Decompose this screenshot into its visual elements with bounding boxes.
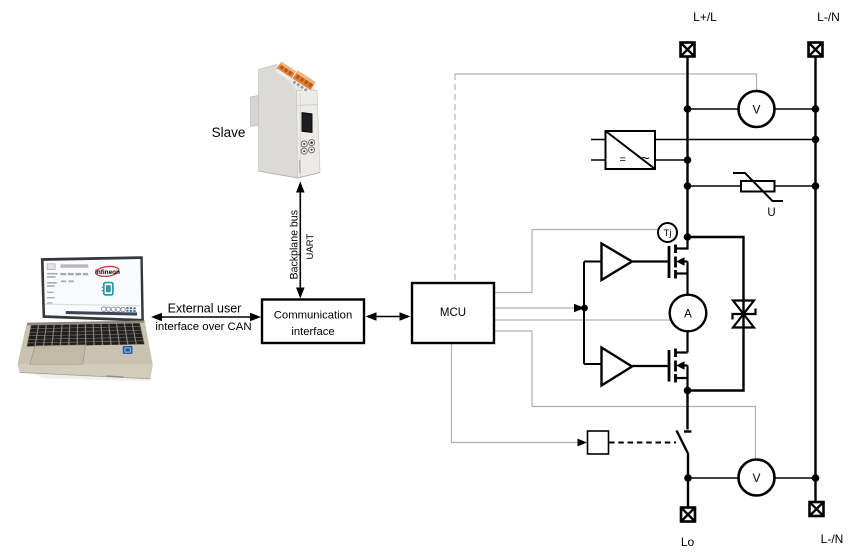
svg-text:MCU: MCU	[440, 307, 466, 319]
svg-text:V: V	[752, 471, 760, 485]
svg-text:A: A	[684, 309, 692, 321]
svg-text:Lo: Lo	[681, 535, 695, 549]
svg-text:UART: UART	[305, 234, 316, 260]
svg-text:L-/N: L-/N	[817, 10, 840, 24]
svg-text:Backplane bus: Backplane bus	[289, 210, 301, 280]
svg-text:V: V	[752, 103, 760, 117]
svg-text:=: =	[620, 154, 626, 166]
svg-text:interface: interface	[291, 326, 334, 338]
svg-text:interface over CAN: interface over CAN	[155, 321, 251, 333]
svg-text:infineon: infineon	[95, 269, 120, 276]
svg-text:Tj: Tj	[664, 228, 672, 239]
svg-text:External user: External user	[168, 302, 242, 316]
svg-text:L-/N: L-/N	[821, 532, 844, 546]
svg-text:U: U	[767, 207, 775, 219]
svg-text:L+/L: L+/L	[693, 10, 717, 24]
svg-text:Slave: Slave	[212, 125, 246, 140]
svg-text:~: ~	[641, 150, 650, 167]
svg-text:Communication: Communication	[274, 310, 352, 322]
